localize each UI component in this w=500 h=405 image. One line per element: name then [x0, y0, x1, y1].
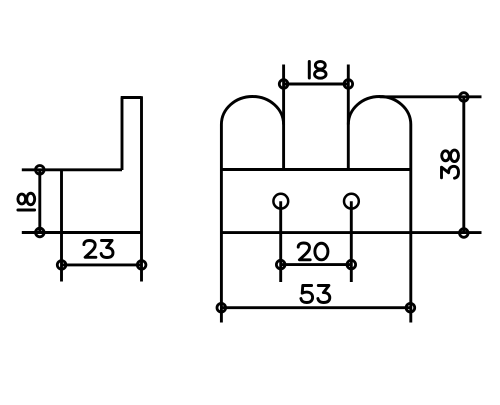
front view: left hook arch	[221, 96, 283, 124]
dim terminator circle 20 right	[347, 260, 356, 269]
front view: plate bottom edge + extension line for 38	[221, 231, 481, 234]
dimension text 53	[301, 286, 330, 303]
front view: plate left edge + extension line for 53	[220, 125, 223, 323]
side view: hook tab top edge	[121, 96, 142, 99]
dim terminator circle 18 side bottom	[36, 228, 45, 237]
side view: hook tab left edge	[121, 98, 124, 171]
dimension text 18 (side view, rotated)	[18, 193, 35, 210]
dim terminator circle 53 left	[217, 303, 226, 312]
dim terminator circle 38 top	[460, 93, 469, 102]
dimension line 18 (side view)	[38, 170, 41, 233]
front view: plate right edge + extension line for 53	[409, 125, 412, 323]
dimension line 38	[462, 97, 465, 233]
front view: right hook arch	[348, 97, 411, 125]
dimension text 20	[298, 243, 328, 260]
dim terminator circle 18 front left	[279, 80, 288, 89]
dim terminator circle 20 left	[276, 260, 285, 269]
dimension line 53	[221, 306, 410, 309]
dim terminator circle 23 left	[57, 261, 66, 270]
dim terminator circle 18 front right	[344, 80, 353, 89]
dimension line 23 (side view)	[62, 263, 142, 266]
front view: plate top edge	[221, 168, 410, 171]
dimension text 38 (rotated)	[442, 150, 459, 178]
dim terminator circle 38 bottom	[460, 229, 469, 238]
dimension line 20	[281, 263, 352, 266]
front view: gap right edge + extension line for 18	[347, 65, 350, 170]
side view: bottom edge extended left (extension line for 18)	[22, 231, 142, 234]
side view: arm top edge extended left (extension line for 18)	[22, 168, 122, 171]
mounting hole right	[344, 194, 359, 209]
front view: gap left edge + extension line for 18	[282, 65, 285, 170]
dim terminator circle 18 side top	[36, 166, 45, 175]
dimension line 18 (front view)	[284, 83, 349, 86]
side view: arm left edge + extension line for 23	[60, 170, 63, 282]
dim terminator circle 53 right	[406, 303, 415, 312]
left hole extension line for 20	[279, 201, 282, 282]
mounting hole left	[273, 194, 288, 209]
dimension text 23	[84, 240, 113, 257]
side view: right edge	[140, 96, 143, 232]
top extension line for 38	[380, 95, 482, 98]
right hole extension line for 20	[350, 201, 353, 282]
dim terminator circle 23 right	[137, 261, 146, 270]
dimension text 18 (front view)	[309, 61, 326, 78]
side view: right extension line for 23	[140, 233, 143, 282]
